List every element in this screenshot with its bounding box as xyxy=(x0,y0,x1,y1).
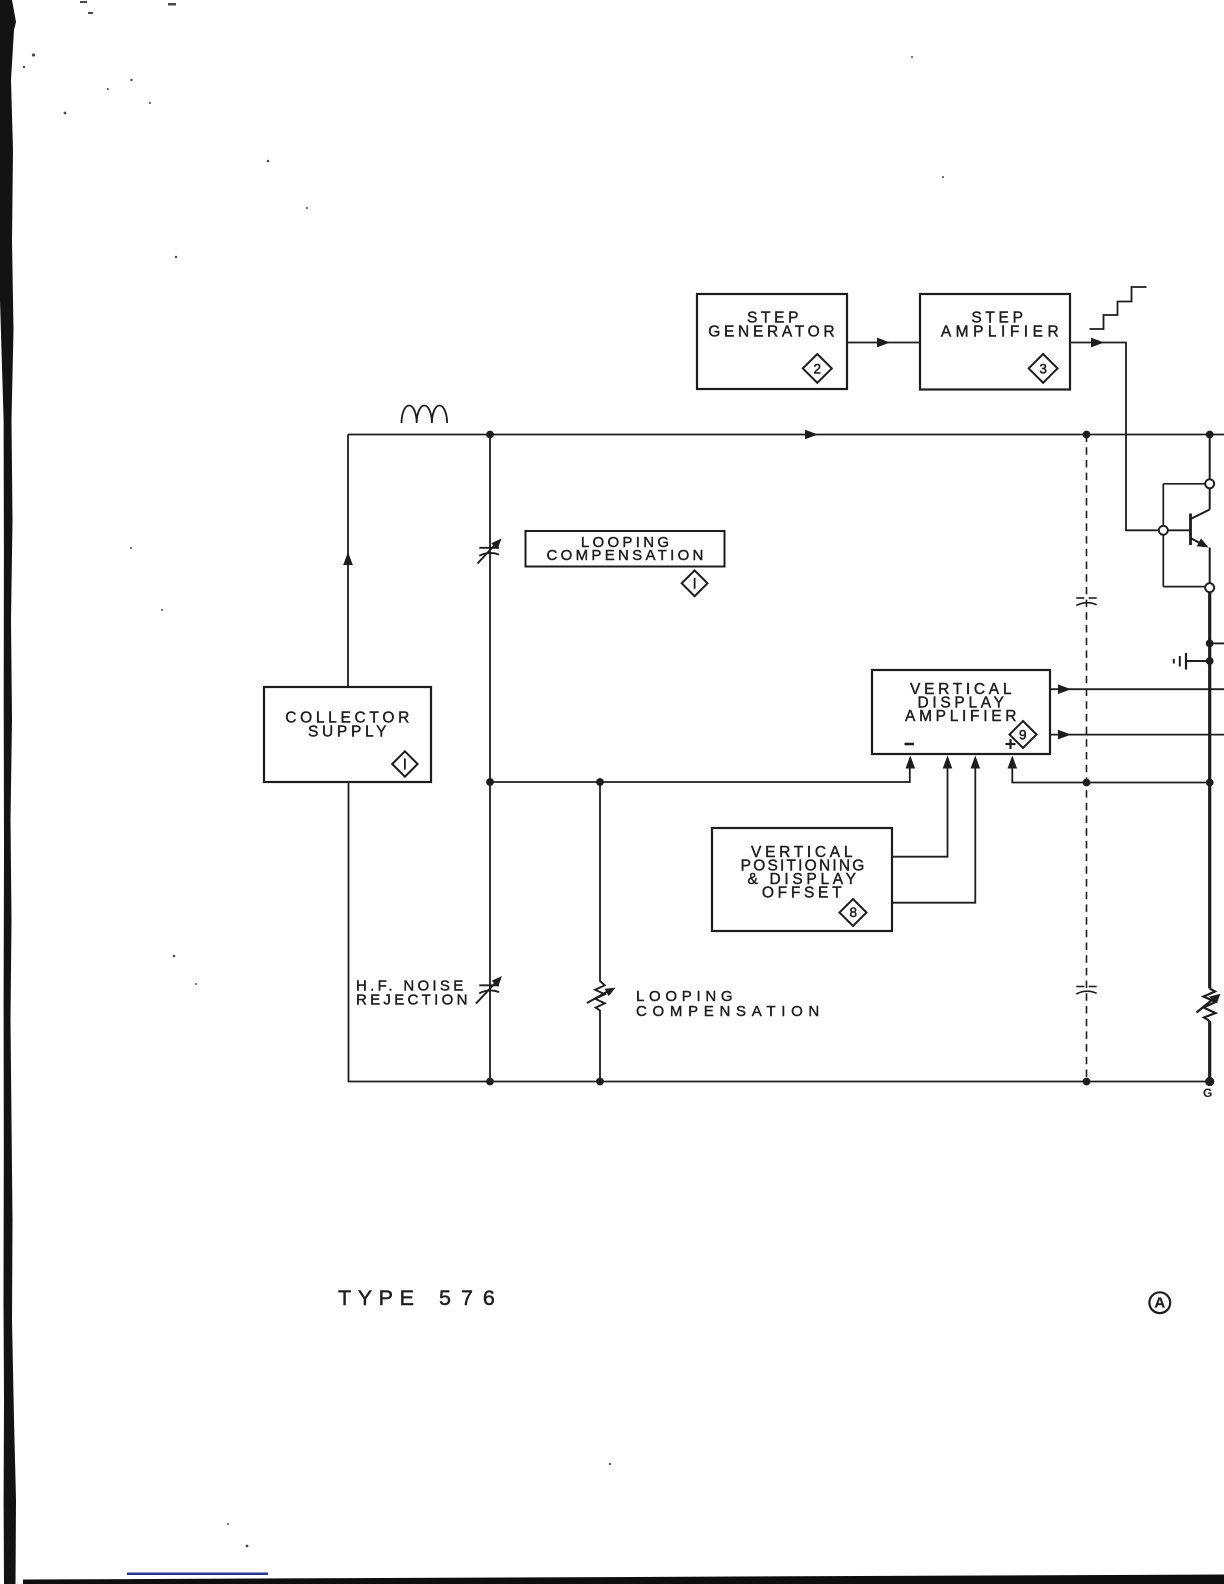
block STEP GENERATOR xyxy=(697,294,847,389)
junction node (feedback rail / right bus) xyxy=(1206,779,1214,787)
junction node (top bus / looping branch) xyxy=(486,431,494,439)
svg-text:COMPENSATION: COMPENSATION xyxy=(636,1003,825,1020)
diamond 8 (vertical positioning) xyxy=(840,899,867,926)
variable capacitor (looping compensation trimmer) xyxy=(478,539,502,564)
svg-text:A: A xyxy=(1154,1295,1165,1312)
label plus input xyxy=(1006,739,1016,749)
terminal: base (open circle) xyxy=(1159,526,1168,535)
diamond 9 (vertical display amplifier) xyxy=(1010,721,1037,748)
diamond 3 (step amplifier) xyxy=(1029,354,1058,383)
label TYPE 576 xyxy=(338,1286,505,1310)
wire: right bus emitter segment (bold) xyxy=(1208,592,1211,988)
wire: collector supply top bus xyxy=(348,430,1224,440)
variable resistor (looping compensation) xyxy=(587,981,616,1011)
label LOOPING COMPENSATION (lower) xyxy=(636,988,825,1020)
junction node (top bus / right bus) xyxy=(1206,431,1214,439)
junction node (bus / ground symbol) xyxy=(1206,657,1214,665)
test socket bracket xyxy=(1163,484,1205,587)
wire: positioning output to VDA input 2 xyxy=(892,756,952,857)
junction node (bus / stub) xyxy=(1206,640,1214,648)
svg-text:2: 2 xyxy=(814,361,822,376)
staircase waveform symbol xyxy=(1090,287,1147,329)
label minus input xyxy=(905,743,915,746)
junction node (bus / ground rail, terminal G) xyxy=(1205,1077,1214,1086)
wire: negative input rail to vertical display amplifier xyxy=(490,756,915,783)
wire: bottom ground rail xyxy=(348,1081,1210,1083)
svg-text:GENERATOR: GENERATOR xyxy=(708,324,838,341)
diamond 1 (looping compensation) xyxy=(682,570,708,596)
svg-text:OFFSET: OFFSET xyxy=(762,885,845,902)
svg-text:AMPLIFIER: AMPLIFIER xyxy=(941,324,1063,341)
stray capacitance (lower) xyxy=(1076,987,1096,995)
wire: step amplifier output to transistor base xyxy=(1070,338,1159,531)
block STEP AMPLIFIER xyxy=(920,294,1070,390)
junction node (negative rail / looping branch) xyxy=(596,778,604,786)
junction node (dashed boundary / ground rail) xyxy=(1083,1078,1091,1086)
wire: right bus collector segment xyxy=(1209,435,1211,480)
junction node (looping branch / ground rail) xyxy=(596,1078,604,1086)
variable capacitor (H.F. noise rejection) xyxy=(476,976,502,1004)
wire: offset output to VDA input 3 xyxy=(892,756,980,903)
inductor (collector supply lead) xyxy=(402,405,448,423)
svg-text:AMPLIFIER: AMPLIFIER xyxy=(905,708,1020,725)
block COLLECTOR SUPPLY xyxy=(264,687,431,782)
wire: looping compensation branch xyxy=(599,782,601,982)
ground symbol xyxy=(1174,653,1207,670)
junction node (feedback rail / dashed boundary) xyxy=(1083,779,1091,787)
block VERTICAL POSITIONING & DISPLAY OFFSET xyxy=(712,828,892,931)
terminal: collector (open circle) xyxy=(1205,479,1214,488)
wire: H.F. noise rejection branch xyxy=(489,435,491,1082)
svg-text:REJECTION: REJECTION xyxy=(356,992,471,1009)
revision mark circled A xyxy=(1149,1292,1170,1313)
dashed line: chassis boundary xyxy=(1086,435,1088,1082)
svg-text:COMPENSATION: COMPENSATION xyxy=(547,547,707,564)
svg-text:9: 9 xyxy=(1019,727,1027,742)
block VERTICAL DISPLAY AMPLIFIER xyxy=(872,670,1050,754)
wire: right bus lower segment (bold) xyxy=(1208,1021,1211,1082)
svg-text:3: 3 xyxy=(1039,361,1047,376)
junction node (H.F. branch / ground rail) xyxy=(486,1078,494,1086)
wire: positive feedback rail to VDA input 4 xyxy=(1008,756,1210,783)
junction node (H.F. branch / negative rail) xyxy=(486,778,494,786)
svg-text:576: 576 xyxy=(439,1286,505,1310)
wire: VDA upper output xyxy=(1050,684,1224,694)
wire: VDA lower output xyxy=(1050,730,1224,740)
svg-text:G: G xyxy=(1203,1086,1212,1100)
variable resistor (right bus) xyxy=(1197,989,1221,1022)
block LOOPING COMPENSATION label box xyxy=(526,531,725,567)
diamond 2 (step generator) xyxy=(803,354,832,383)
diamond 1 (collector supply) xyxy=(392,751,417,776)
svg-text:SUPPLY: SUPPLY xyxy=(308,724,390,741)
wire: step generator to step amplifier xyxy=(847,338,920,348)
label H.F. NOISE REJECTION xyxy=(356,978,471,1009)
terminal: emitter (open circle) xyxy=(1205,583,1214,592)
svg-text:TYPE: TYPE xyxy=(338,1286,421,1310)
stray capacitance (upper) xyxy=(1076,598,1096,606)
wire: collector supply up lead xyxy=(343,435,353,688)
junction node (top bus / dashed boundary) xyxy=(1083,431,1091,439)
transistor Q (device under test) xyxy=(1168,488,1210,583)
wire: collector supply lower lead to ground rail xyxy=(348,782,350,1082)
wire: stub right of bus xyxy=(1210,642,1224,644)
svg-text:8: 8 xyxy=(850,905,858,920)
